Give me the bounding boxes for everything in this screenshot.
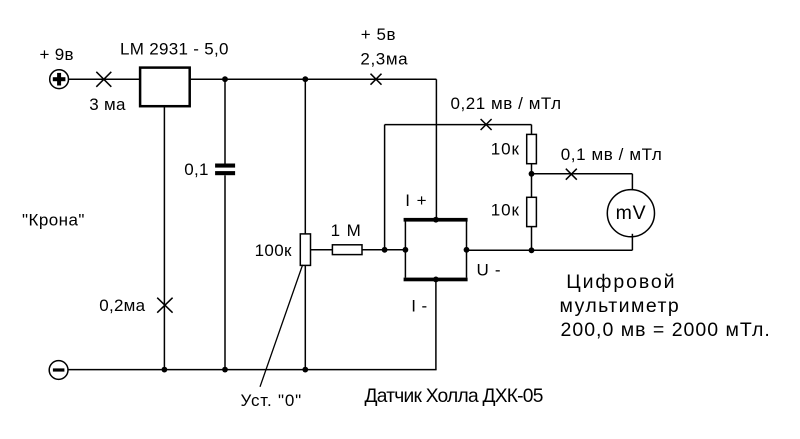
junction dot: [433, 217, 439, 223]
svg-text:LM 2931 - 5,0: LM 2931 - 5,0: [120, 40, 229, 59]
junction dot: [529, 247, 535, 253]
resistor 10к lower: [527, 174, 537, 251]
wire: [435, 79, 437, 218]
svg-text:10к: 10к: [491, 200, 520, 219]
junction dot: [162, 367, 168, 373]
svg-text:I -: I -: [411, 296, 427, 315]
wire: [191, 78, 437, 80]
svg-text:"Крона": "Крона": [22, 210, 85, 229]
svg-text:+ 9в: + 9в: [40, 45, 74, 64]
junction dot: [302, 76, 308, 82]
wire: [68, 369, 436, 371]
wire: [631, 234, 633, 251]
current marker X 0,2ма: [157, 298, 172, 313]
svg-text:100к: 100к: [255, 241, 292, 260]
svg-text:0,1 мв / мТл: 0,1 мв / мТл: [561, 145, 663, 164]
svg-text:2,3ма: 2,3ма: [360, 50, 408, 69]
current marker X 3 ма: [96, 72, 111, 87]
label Цифровой мультиметр: [560, 271, 771, 341]
resistor 10к upper: [527, 125, 537, 174]
current marker X 0,21: [481, 119, 492, 130]
current marker X 0,1: [566, 169, 577, 180]
svg-text:мультиметр: мультиметр: [560, 295, 681, 317]
pot adjustment leader line: [260, 265, 303, 387]
junction dot: [382, 247, 388, 253]
svg-text:mV: mV: [616, 202, 647, 224]
wire: [385, 124, 532, 126]
wire: [631, 174, 633, 193]
junction dot: [403, 247, 409, 253]
svg-text:10к: 10к: [491, 139, 520, 158]
battery plus terminal: [50, 70, 69, 89]
wire: [467, 249, 633, 251]
svg-text:Датчик Холла ДХК-05: Датчик Холла ДХК-05: [365, 386, 543, 407]
wire: [311, 249, 333, 251]
svg-text:U -: U -: [477, 260, 502, 279]
wire: [68, 78, 139, 80]
wire: [532, 173, 633, 175]
svg-text:1 М: 1 М: [331, 221, 362, 240]
svg-text:+ 5в: + 5в: [361, 25, 396, 44]
junction dot: [464, 247, 470, 253]
voltage regulator LM 2931: [140, 68, 190, 107]
junction dot: [529, 171, 535, 177]
junction dot: [433, 277, 439, 283]
svg-text:0,2ма: 0,2ма: [99, 296, 145, 315]
svg-text:0,1: 0,1: [184, 160, 209, 179]
wire: [362, 249, 405, 251]
svg-text:3 ма: 3 ма: [89, 95, 126, 114]
junction dot: [302, 367, 308, 373]
svg-text:Цифровой: Цифровой: [566, 271, 676, 293]
svg-text:0,21 мв / мТл: 0,21 мв / мТл: [451, 94, 562, 113]
junction dot: [222, 76, 228, 82]
battery minus terminal: [49, 361, 68, 380]
resistor 1 М: [332, 245, 362, 255]
wire: [163, 107, 165, 370]
hall sensor ДХК-05: [404, 218, 468, 281]
capacitor 0,1: [215, 79, 235, 369]
junction dot: [222, 367, 228, 373]
svg-text:200,0 мв = 2000 мТл.: 200,0 мв = 2000 мТл.: [561, 319, 771, 341]
wire: [384, 125, 386, 250]
millivoltmeter mV: [607, 190, 654, 237]
current marker X 2,3ма: [371, 74, 382, 85]
svg-text:Уст. "0": Уст. "0": [241, 391, 302, 410]
svg-text:I +: I +: [405, 191, 427, 210]
potentiometer 100к: [300, 79, 310, 369]
wire: [435, 281, 437, 369]
